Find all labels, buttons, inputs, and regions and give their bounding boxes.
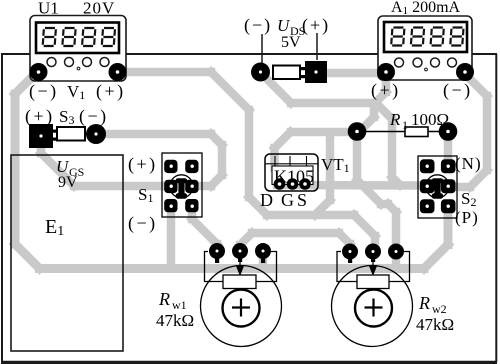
wire R1 right node to S2 top-right pin (444, 138, 453, 163)
svg-text:100Ω: 100Ω (411, 110, 449, 129)
battery box E1 (11, 155, 123, 351)
wire R1 left node to VT1 D pin (275, 132, 291, 168)
battery UDS 5V (251, 33, 327, 83)
wire R1 left node horizontal (291, 128, 357, 137)
resistor R1 (348, 122, 458, 141)
svg-text:(+): (+) (25, 106, 55, 127)
svg-text:(+): (+) (371, 80, 401, 101)
switch S1 (162, 153, 202, 217)
wire VT1 pins row to S2 middle-left pin (277, 181, 424, 190)
wire V1(+) to Rw2 middle terminal (117, 72, 375, 248)
svg-text:(−): (−) (128, 213, 158, 234)
svg-text:9V: 9V (58, 174, 78, 191)
switch S3 (29, 124, 106, 148)
svg-text:1: 1 (402, 118, 408, 132)
terminal V1 minus (30, 63, 48, 81)
svg-text:S: S (297, 190, 307, 210)
wire S1 bottom-left pin to bottom bus (167, 206, 176, 268)
wire Rw2 right terminal stub to bottom bus (392, 253, 401, 265)
svg-text:20V: 20V (83, 0, 115, 18)
wire S3(+)/UGS to S1 middle-left pin (41, 144, 168, 186)
svg-text:w2: w2 (432, 302, 447, 316)
svg-text:A1 200mA: A1 200mA (391, 0, 461, 17)
svg-text:R: R (418, 293, 430, 313)
svg-text:5V: 5V (281, 34, 301, 51)
wire branch junction to V1(+) line (315, 134, 330, 215)
svg-text:(+): (+) (302, 15, 330, 36)
svg-text:U1: U1 (38, 0, 59, 18)
svg-text:(−): (−) (79, 106, 109, 127)
wire S1 bottom-right pin to Rw1 left terminal (192, 207, 217, 250)
svg-text:D: D (260, 190, 273, 210)
TRACES (15, 72, 487, 269)
svg-text:U: U (277, 16, 291, 35)
wire S3(-) to S1 middle-right pin (100, 134, 222, 186)
svg-text:(+): (+) (96, 81, 126, 102)
terminal A1 minus (456, 63, 474, 81)
terminal A1 plus (377, 63, 395, 81)
wire UDS(-) down to S2 junction (262, 74, 400, 185)
transistor VT1 (265, 154, 318, 191)
svg-text:R: R (158, 289, 170, 309)
potentiometer Rw1 (201, 243, 282, 347)
svg-text:(+): (+) (128, 154, 158, 175)
wire Rw1 right terminal stub to bottom bus (259, 252, 268, 266)
wire UDS(+) to A1(+) (325, 69, 386, 78)
svg-text:R: R (389, 110, 401, 129)
switch S2 (418, 156, 457, 218)
wire A1(+) to R1 left node (359, 74, 386, 132)
svg-text:(P): (P) (455, 208, 479, 227)
potentiometer Rw2 (332, 244, 413, 347)
wire R1 left node down to Rw2 right terminal (357, 134, 396, 242)
svg-text:(−): (−) (443, 80, 473, 101)
terminal V1 plus (109, 63, 127, 81)
wire V1(-) to bottom bus to S2 bottom-right pin (15, 73, 448, 269)
wire A1(-) to S2 middle-right pin (450, 73, 487, 187)
ammeter A1 body (378, 16, 472, 80)
svg-text:G: G (281, 190, 294, 210)
svg-text:47kΩ: 47kΩ (416, 315, 454, 334)
svg-text:(−): (−) (29, 81, 59, 102)
svg-text:(N): (N) (455, 154, 482, 173)
svg-text:47kΩ: 47kΩ (156, 311, 194, 330)
svg-text:K105: K105 (274, 167, 314, 187)
voltmeter U1 body (30, 16, 126, 82)
svg-text:w1: w1 (172, 298, 187, 312)
svg-text:(−): (−) (244, 15, 272, 36)
wire Rw1 middle terminal to Rw2 left terminal (240, 233, 350, 250)
